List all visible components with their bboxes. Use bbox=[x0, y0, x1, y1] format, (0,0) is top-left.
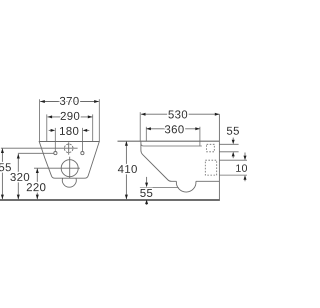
370 extension line left bbox=[38, 99, 40, 141]
mounting hole left bbox=[54, 152, 57, 155]
220 arrowhead bottom bbox=[36, 195, 39, 200]
320 arrowhead top bbox=[17, 154, 20, 159]
label 55 bottom bbox=[140, 189, 152, 197]
label 220 bbox=[27, 183, 46, 191]
55 left dimension line bbox=[1, 148, 3, 199]
10 arrowhead lower (pointing up) bbox=[244, 175, 247, 180]
370 extension line right bbox=[98, 99, 100, 141]
360 extension line right bbox=[199, 127, 201, 146]
180 dimension tail right bbox=[86, 129, 89, 131]
180 arrowhead right (outside, pointing left) bbox=[83, 129, 88, 132]
drain crosshair horizontal / 220 extension line bbox=[34, 167, 80, 169]
360 extension line left bbox=[145, 127, 147, 141]
180 arrowhead left (outside, pointing right) bbox=[51, 129, 56, 132]
label 360 bbox=[165, 125, 184, 133]
290 extension line left bbox=[46, 114, 48, 141]
530 dimension line bbox=[141, 113, 220, 115]
290 dimension line bbox=[48, 116, 93, 118]
10 extension line upper bbox=[219, 159, 247, 161]
410 dimension line bbox=[125, 141, 127, 199]
55 top-right extension line lower bbox=[219, 151, 238, 153]
530 extension line left bbox=[139, 112, 141, 141]
180 extension line right bbox=[81, 128, 83, 151]
410 arrowhead top bbox=[125, 141, 128, 146]
flush inlet crosshair vertical bbox=[68, 142, 70, 154]
label 370 bbox=[60, 97, 79, 105]
flush inlet circle (front view) bbox=[64, 144, 73, 153]
seat underside line (side view) bbox=[141, 144, 202, 146]
55 top-right arrow stems bbox=[232, 138, 234, 140]
label 410 bbox=[118, 165, 137, 173]
underside line to wall (side view) bbox=[196, 180, 220, 182]
seat top line (side view) bbox=[118, 140, 220, 142]
220 dimension line bbox=[36, 168, 38, 199]
320 dimension line bbox=[17, 154, 19, 199]
hidden flush connection box (dashed) bbox=[207, 144, 215, 152]
floor line bbox=[0, 199, 220, 201]
360 arrowhead left bbox=[146, 127, 151, 130]
55 bottom arrow stems bbox=[146, 177, 148, 183]
320 arrowhead bottom bbox=[17, 195, 20, 200]
bowl outlet arc (front view) bbox=[62, 178, 76, 187]
370 dimension line bbox=[40, 101, 99, 103]
trap outlet arc (side view) bbox=[176, 181, 196, 192]
flush inlet crosshair horizontal / 55 extension line bbox=[1, 147, 78, 149]
290 extension line right bbox=[92, 114, 94, 141]
55 left arrowhead bottom bbox=[1, 195, 4, 200]
wall face line (side view) bbox=[218, 114, 220, 201]
55 top-right arrowhead upper (pointing down) bbox=[232, 140, 235, 145]
55 left arrowhead top bbox=[1, 148, 4, 153]
410 arrowhead bottom bbox=[125, 195, 128, 200]
290 arrowhead left bbox=[48, 115, 53, 118]
220 arrowhead top bbox=[36, 168, 39, 173]
55 bottom extension line (side view) bbox=[140, 186, 179, 188]
55 bottom arrowhead lower (pointing up) bbox=[145, 200, 148, 205]
370 arrowhead right bbox=[94, 100, 99, 103]
drain circle (front view) bbox=[61, 160, 78, 177]
320 extension line bbox=[18, 152, 54, 154]
label 180 bbox=[60, 127, 78, 135]
530 arrowhead left bbox=[141, 113, 146, 116]
label 320 bbox=[10, 173, 29, 181]
drain crosshair vertical bbox=[69, 157, 71, 179]
55 top-right arrowhead lower (pointing up) bbox=[232, 152, 235, 157]
530 arrowhead right bbox=[215, 113, 220, 116]
180 extension line left bbox=[54, 128, 56, 151]
label 10 bbox=[236, 164, 247, 172]
10 arrow stems bbox=[244, 153, 246, 156]
360 arrowhead right bbox=[195, 127, 200, 130]
label 55 left bbox=[0, 163, 11, 171]
180 dimension tail left bbox=[49, 129, 52, 131]
55 top-right extension line upper bbox=[219, 143, 238, 145]
label 530 bbox=[168, 110, 187, 118]
10 arrowhead upper (pointing down) bbox=[244, 156, 247, 161]
10 extension line lower bbox=[219, 174, 247, 176]
mounting hole right bbox=[81, 152, 84, 155]
55 bottom arrowhead upper (pointing down) bbox=[145, 183, 148, 188]
290 arrowhead right bbox=[88, 115, 93, 118]
WC side profile: front edge, underside slant, bottom bbox=[141, 141, 177, 181]
hidden supply box (dashed) bbox=[205, 160, 216, 175]
WC front view body outline bbox=[39, 142, 99, 179]
370 arrowhead left bbox=[40, 100, 45, 103]
360 dimension line bbox=[146, 128, 200, 130]
label 290 bbox=[61, 112, 80, 120]
label 55 top-right bbox=[227, 127, 239, 135]
